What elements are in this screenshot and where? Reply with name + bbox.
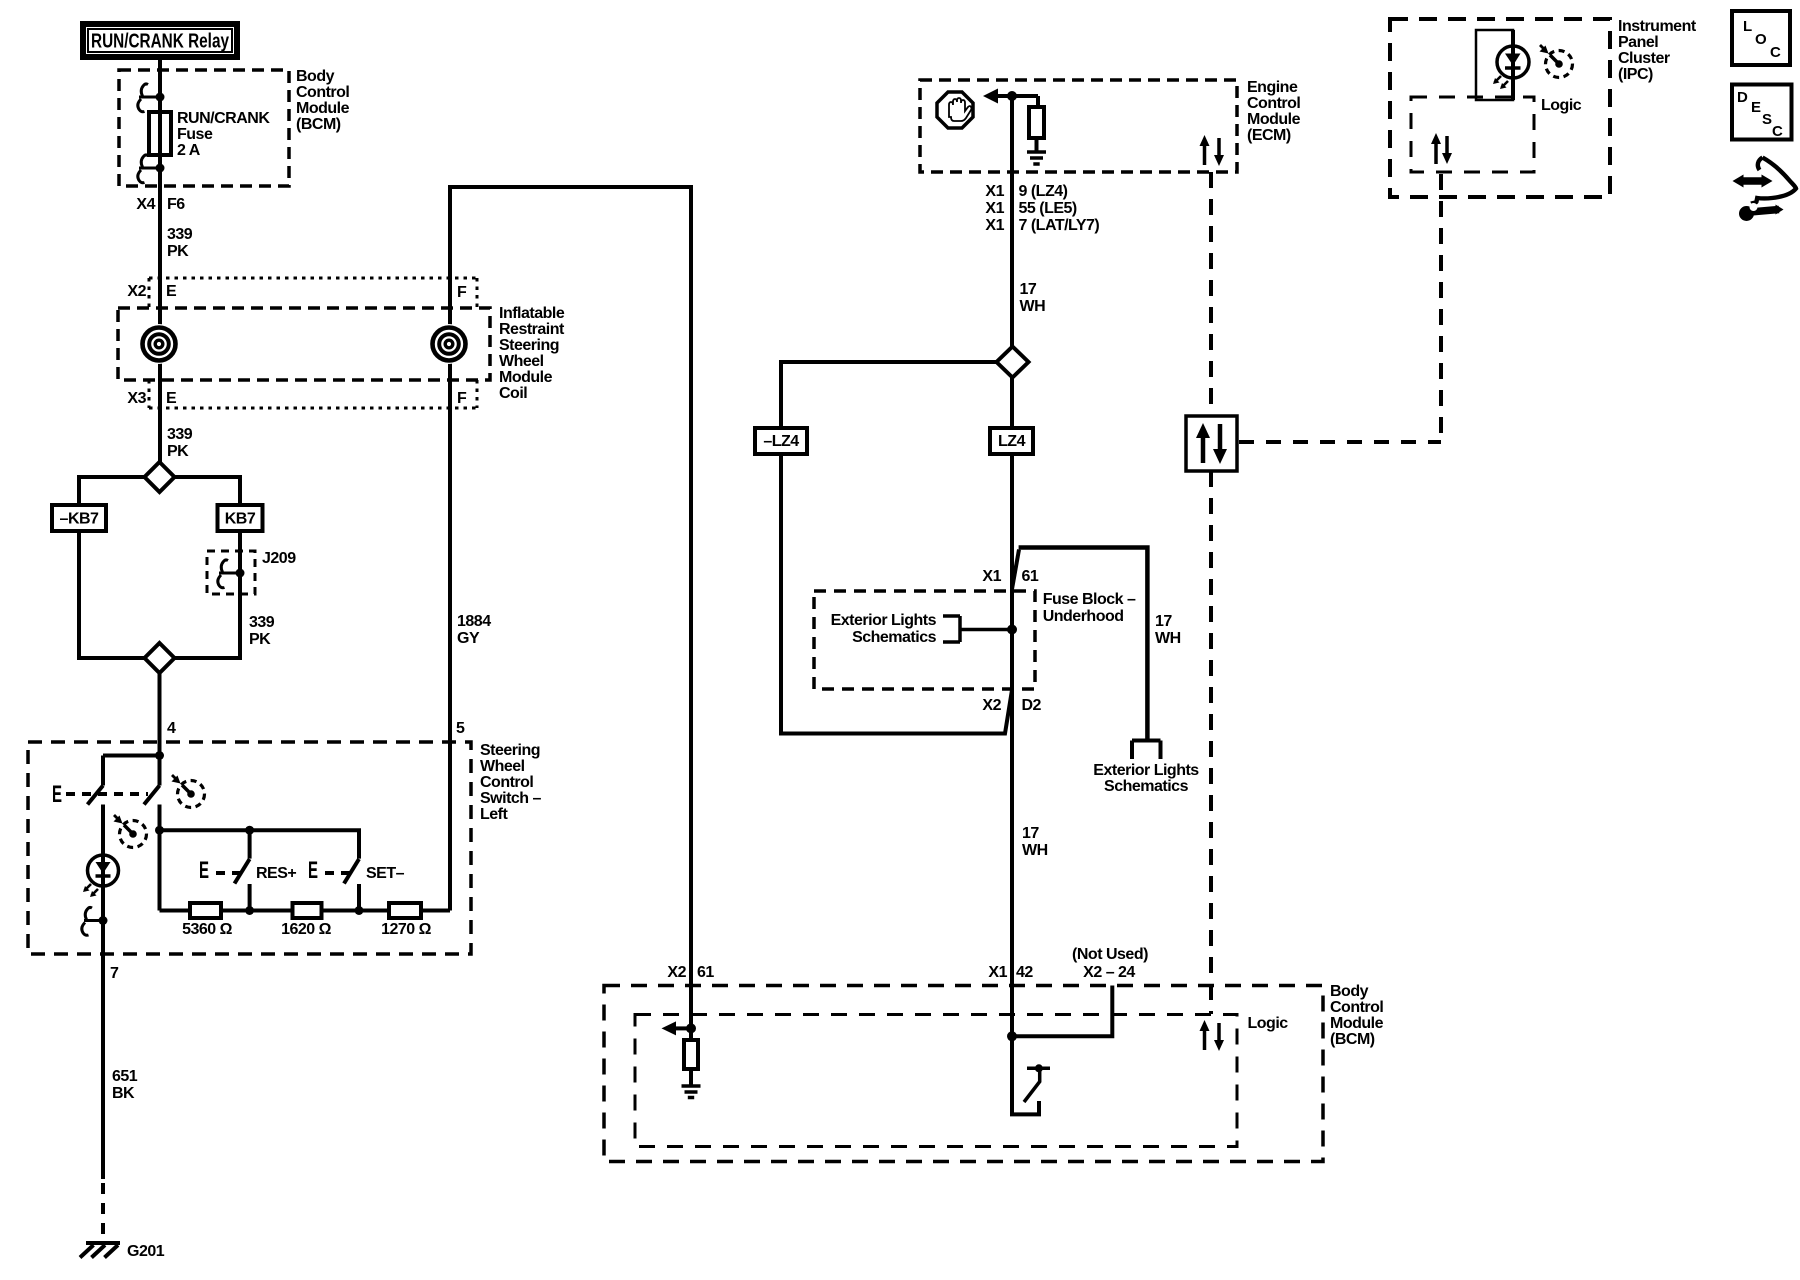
wire to ground — [1035, 138, 1039, 151]
wire: pin 7 to ground — [101, 921, 105, 1180]
wire: -KB7 down to lower diamond — [79, 531, 145, 658]
svg-text:D: D — [1737, 89, 1748, 106]
svg-text:Exterior Lights: Exterior Lights — [1093, 762, 1199, 779]
svg-text:Switch –: Switch – — [480, 790, 542, 807]
inner logic box (IPC) — [1411, 97, 1534, 172]
svg-text:S: S — [1762, 111, 1772, 128]
svg-text:Body: Body — [1330, 983, 1369, 1000]
svg-text:PK: PK — [249, 631, 271, 648]
updown arrows (BCM serial data) — [1200, 1020, 1225, 1051]
svg-text:RUN/CRANK: RUN/CRANK — [177, 110, 270, 127]
bracket to wire — [943, 616, 1012, 642]
stop-hand icon — [937, 92, 973, 128]
coil L2 (right spiral) — [429, 324, 469, 364]
connector X2 row (dotted) — [149, 278, 477, 308]
resistor R2 1620 — [293, 903, 322, 918]
switch SET- — [344, 859, 359, 884]
wire: -LZ4 down and over to X2 D2 — [781, 454, 1012, 734]
node LZ4 — [990, 428, 1033, 454]
svg-text:E: E — [199, 857, 209, 884]
svg-text:Schematics: Schematics — [1104, 778, 1189, 795]
svg-text:Logic: Logic — [1541, 97, 1582, 114]
module box: Body Control Module (BCM) bottom — [604, 986, 1323, 1162]
dashed serial data to IPC — [1239, 440, 1441, 444]
svg-text:E: E — [166, 283, 177, 300]
serial data box with arrows — [1186, 416, 1237, 471]
ground G201 — [80, 1243, 120, 1258]
svg-text:D2: D2 — [1022, 697, 1042, 714]
svg-text:PK: PK — [167, 243, 189, 260]
fuse block outline — [1012, 550, 1019, 590]
svg-text:Module: Module — [1330, 1015, 1384, 1032]
svg-text:61: 61 — [697, 964, 714, 981]
svg-text:E: E — [1751, 99, 1761, 116]
wire: relay to fuse to X4 pin — [158, 60, 162, 278]
svg-text:WH: WH — [1022, 842, 1048, 859]
svg-text:J209: J209 — [262, 550, 296, 567]
svg-text:WH: WH — [1155, 630, 1181, 647]
wire: lower diamond to switch pin 4 — [158, 673, 162, 756]
svg-text:(ECM): (ECM) — [1247, 127, 1291, 144]
switch SW1 (left, lamp) — [101, 756, 105, 786]
svg-text:E: E — [52, 781, 62, 808]
svg-text:–KB7: –KB7 — [60, 511, 100, 528]
wire: KB7 down through J209 to lower diamond — [175, 531, 241, 658]
svg-text:Module: Module — [296, 100, 350, 117]
splice diamond S3 — [997, 347, 1029, 378]
node: branch junction — [103, 754, 160, 758]
svg-text:1620 Ω: 1620 Ω — [281, 921, 332, 938]
svg-text:E: E — [166, 390, 177, 407]
svg-text:SET–: SET– — [366, 865, 405, 882]
svg-text:X2: X2 — [982, 697, 1001, 714]
svg-text:5: 5 — [456, 720, 465, 737]
svg-text:Control: Control — [1247, 95, 1300, 112]
svg-text:17: 17 — [1022, 825, 1039, 842]
svg-text:Logic: Logic — [1248, 1015, 1289, 1032]
svg-text:Module: Module — [1247, 111, 1301, 128]
module box: Body Control Module (BCM) top — [119, 70, 289, 186]
module box: coil (dashed) — [118, 308, 490, 380]
svg-text:17: 17 — [1020, 281, 1037, 298]
updown arrows (IPC serial data) — [1431, 133, 1452, 164]
svg-text:Schematics: Schematics — [852, 629, 937, 646]
resistor R3 1270 — [389, 903, 421, 918]
svg-text:Fuse: Fuse — [177, 126, 213, 143]
svg-text:E: E — [308, 857, 318, 884]
svg-text:651: 651 — [112, 1068, 138, 1085]
svg-text:7: 7 — [110, 965, 119, 982]
ground (ECM internal) — [1027, 152, 1046, 164]
module box: Steering Wheel Control Switch - Left — [28, 742, 471, 954]
svg-text:X1: X1 — [985, 217, 1004, 234]
svg-text:F: F — [457, 390, 467, 407]
module box: Exterior Lights Schematics (dashed) — [814, 591, 1035, 689]
svg-text:Steering: Steering — [480, 742, 540, 759]
gauge icon G2 — [114, 815, 147, 848]
resistor (BCM internal pull-up) — [684, 1040, 698, 1069]
svg-text:339: 339 — [167, 426, 193, 443]
svg-text:LZ4: LZ4 — [998, 433, 1026, 450]
svg-text:X2: X2 — [667, 964, 686, 981]
svg-text:PK: PK — [167, 443, 189, 460]
svg-text:Restraint: Restraint — [499, 321, 565, 338]
svg-text:X3: X3 — [127, 390, 146, 407]
off-page bracket — [1132, 741, 1161, 760]
arrow into BCM logic — [662, 1021, 677, 1035]
svg-text:BK: BK — [112, 1085, 135, 1102]
svg-text:9 (LZ4): 9 (LZ4) — [1019, 183, 1068, 200]
module box: Instrument Panel Cluster (IPC) — [1390, 19, 1610, 197]
svg-text:Wheel: Wheel — [499, 353, 544, 370]
coil L1 (left spiral) — [139, 324, 179, 364]
svg-text:RES+: RES+ — [256, 865, 296, 882]
svg-text:339: 339 — [249, 614, 275, 631]
resistor (ECM internal) — [1029, 107, 1044, 138]
svg-text:1884: 1884 — [457, 613, 491, 630]
LED (telltale) — [1511, 30, 1515, 100]
svg-text:X1: X1 — [985, 183, 1004, 200]
svg-text:Engine: Engine — [1247, 79, 1298, 96]
svg-text:X1: X1 — [988, 964, 1007, 981]
svg-text:X4: X4 — [136, 196, 155, 213]
svg-text:(IPC): (IPC) — [1618, 66, 1653, 83]
fuse clip upper — [138, 84, 160, 112]
svg-text:61: 61 — [1022, 568, 1039, 585]
data link connector icon — [1733, 158, 1797, 222]
svg-text:Steering: Steering — [499, 337, 559, 354]
svg-text:339: 339 — [167, 226, 193, 243]
clip below LED — [82, 907, 103, 935]
switch SW2 (main) — [158, 756, 162, 786]
svg-text:4: 4 — [167, 720, 176, 737]
wire: diamond left branch to -KB7 — [79, 477, 145, 505]
svg-text:GY: GY — [457, 630, 480, 647]
wire: resistor to ground — [689, 1069, 693, 1085]
main wire: ECM junction down to BCM dot — [1010, 96, 1014, 1036]
svg-text:C: C — [1770, 44, 1781, 61]
svg-text:WH: WH — [1020, 298, 1046, 315]
switch RES+ — [235, 859, 250, 884]
svg-text:F: F — [457, 284, 467, 301]
svg-text:X2: X2 — [127, 283, 146, 300]
telltale rect — [1476, 30, 1513, 100]
wire: diamond left branch to -LZ4 — [781, 362, 997, 428]
fuse F: RUN/CRANK Fuse 2A — [149, 112, 171, 155]
LED D1 (illumination) — [101, 805, 105, 921]
resistor ladder: top bus — [160, 830, 360, 858]
gauge icon (IPC) — [1540, 45, 1573, 78]
svg-text:Body: Body — [296, 68, 335, 85]
svg-text:5360 Ω: 5360 Ω — [182, 921, 233, 938]
svg-text:Panel: Panel — [1618, 34, 1658, 51]
fuse clip lower — [138, 155, 160, 183]
ground (BCM internal) — [682, 1086, 701, 1098]
svg-text:–LZ4: –LZ4 — [763, 433, 799, 450]
splice diamond S2 — [145, 643, 175, 673]
svg-text:Module: Module — [499, 369, 553, 386]
svg-text:X1: X1 — [985, 200, 1004, 217]
svg-text:(BCM): (BCM) — [296, 116, 341, 133]
svg-text:G201: G201 — [127, 1243, 165, 1260]
svg-text:Instrument: Instrument — [1618, 18, 1697, 35]
svg-text:X2 – 24: X2 – 24 — [1083, 964, 1135, 981]
connector X3 row (dotted) — [149, 380, 477, 408]
node -LZ4 — [755, 428, 807, 454]
svg-text:Left: Left — [480, 806, 509, 823]
svg-text:1270 Ω: 1270 Ω — [381, 921, 432, 938]
svg-text:Control: Control — [480, 774, 533, 791]
svg-text:F6: F6 — [167, 196, 185, 213]
node: BCM input junction — [686, 1023, 696, 1033]
relay K: RUN/CRANK Relay box — [83, 24, 237, 57]
resistor R1 5360 — [190, 903, 221, 918]
svg-text:42: 42 — [1016, 964, 1033, 981]
svg-text:RUN/CRANK Relay: RUN/CRANK Relay — [91, 31, 230, 53]
svg-text:L: L — [1743, 18, 1752, 35]
wire to internal resistor — [1036, 96, 1040, 107]
svg-text:Coil: Coil — [499, 385, 527, 402]
svg-text:KB7: KB7 — [225, 511, 256, 528]
svg-text:Control: Control — [296, 84, 349, 101]
DESC box — [1732, 85, 1792, 140]
module box: Engine Control Module (ECM) — [920, 80, 1237, 172]
svg-text:2 A: 2 A — [177, 142, 201, 159]
dashed serial data channel (vertical) — [1209, 172, 1213, 416]
svg-text:Wheel: Wheel — [480, 758, 525, 775]
BCM X2-24 stub — [1012, 986, 1112, 1037]
svg-text:Control: Control — [1330, 999, 1383, 1016]
svg-text:(Not Used): (Not Used) — [1072, 946, 1148, 963]
updown arrows (ECM serial data) — [1200, 135, 1225, 166]
svg-text:X1: X1 — [982, 568, 1001, 585]
left rail — [158, 830, 162, 910]
jumper J209 — [207, 551, 255, 594]
svg-text:(BCM): (BCM) — [1330, 1031, 1375, 1048]
svg-text:55 (LE5): 55 (LE5) — [1019, 200, 1077, 217]
wire: diamond right branch to KB7 — [175, 477, 241, 505]
svg-text:Fuse Block –: Fuse Block – — [1043, 591, 1136, 608]
svg-text:Cluster: Cluster — [1618, 50, 1670, 67]
wire: junction to resistor — [689, 1028, 693, 1040]
svg-text:Underhood: Underhood — [1043, 608, 1124, 625]
node: junction on main wire — [1007, 91, 1017, 101]
svg-text:O: O — [1755, 31, 1767, 48]
svg-text:7 (LAT/LY7): 7 (LAT/LY7) — [1019, 217, 1100, 234]
svg-text:C: C — [1772, 123, 1783, 140]
svg-text:17: 17 — [1155, 613, 1172, 630]
svg-text:Exterior Lights: Exterior Lights — [831, 612, 937, 629]
BCM switch — [1012, 1036, 1039, 1114]
arrow into ECM — [983, 89, 998, 104]
splice diamond S1 — [145, 462, 175, 492]
wire: through left coil — [158, 278, 162, 462]
bottom bus — [160, 909, 451, 913]
node -KB7 — [52, 505, 106, 531]
gauge icon G1 — [172, 775, 205, 808]
svg-text:Inflatable: Inflatable — [499, 305, 565, 322]
LOC box — [1732, 11, 1790, 65]
node KB7 — [218, 505, 263, 531]
wire: 1884 GY right branch, coil F up and over to BCM — [450, 187, 691, 1028]
